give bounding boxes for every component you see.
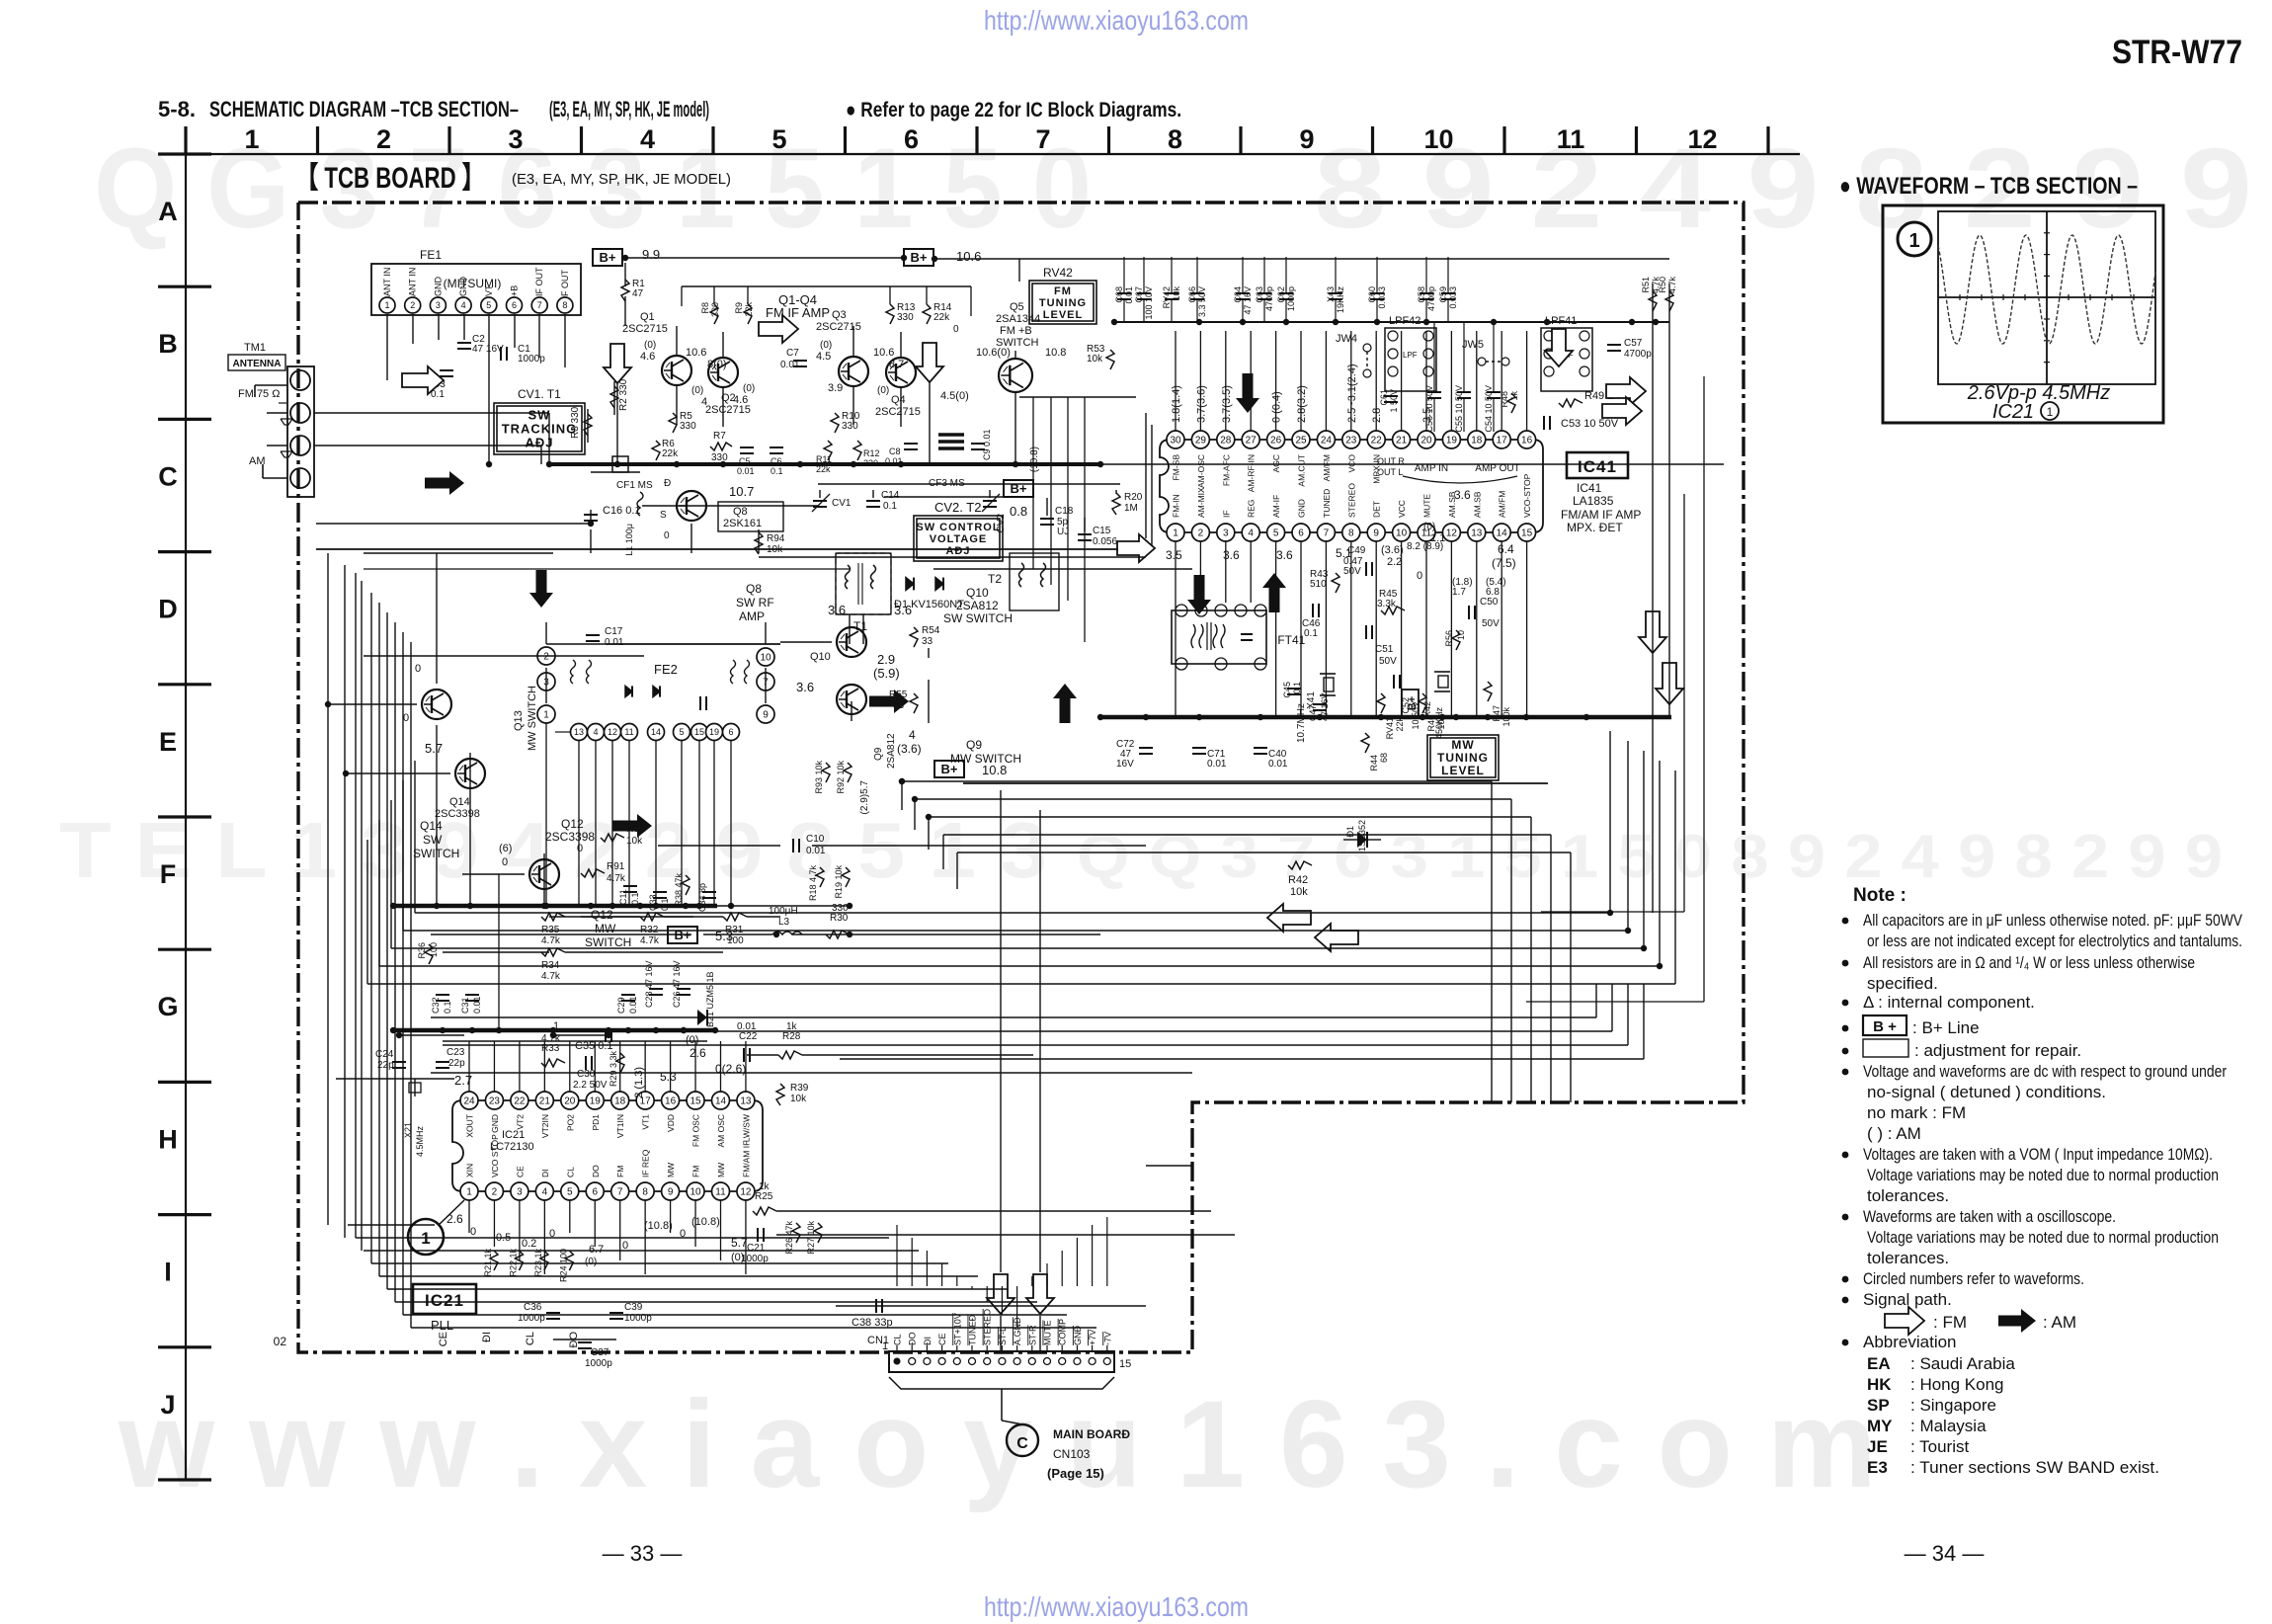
- svg-text:C57: C57: [1624, 338, 1643, 349]
- svg-text:CV2. T2: CV2. T2: [934, 500, 981, 515]
- svg-text:10: 10: [1456, 630, 1466, 640]
- svg-text:0: 0: [415, 663, 421, 675]
- svg-text:MW: MW: [1451, 738, 1474, 752]
- svg-text:8(0): 8(0): [707, 359, 727, 370]
- svg-text:VT2IN: VT2IN: [540, 1114, 550, 1138]
- svg-text:: Singapore: : Singapore: [1910, 1396, 1996, 1415]
- svg-text:4: 4: [909, 728, 916, 742]
- svg-text:ĐO: ĐO: [908, 1333, 918, 1346]
- svg-text:1: 1: [244, 124, 259, 154]
- svg-text:FM: FM: [615, 1166, 625, 1177]
- svg-text:● Refer to page 22 for IC Bloc: ● Refer to page 22 for IC Block Diagrams…: [846, 99, 1181, 122]
- svg-text:R3 330: R3 330: [570, 406, 581, 439]
- svg-text:SP: SP: [1867, 1396, 1890, 1415]
- signal arrow FM down LPF41: [1545, 329, 1573, 366]
- svg-text:FM-IN: FM-IN: [1172, 494, 1181, 518]
- svg-text:C7: C7: [786, 348, 799, 359]
- resistor R31: [723, 913, 747, 921]
- variable capacitor CV2: [983, 500, 997, 502]
- wire antenna leads: [255, 384, 287, 386]
- svg-text:MAIN BOARĐ: MAIN BOARĐ: [1053, 1427, 1130, 1441]
- resistor R37: [601, 834, 624, 842]
- svg-text:R50: R50: [1658, 277, 1667, 293]
- capacitor C64: [1236, 292, 1250, 294]
- svg-text:20: 20: [1420, 436, 1432, 447]
- resistor R29: [616, 1053, 624, 1073]
- svg-text:B: B: [158, 329, 178, 359]
- svg-text:JE: JE: [1867, 1437, 1888, 1456]
- svg-text:10k: 10k: [790, 1094, 807, 1104]
- svg-text:C29: C29: [616, 997, 626, 1014]
- adjust box FM TUNING LEVEL: [1029, 281, 1096, 324]
- svg-text:ĐI: ĐI: [923, 1337, 933, 1345]
- svg-text:F OUT: F OUT: [560, 270, 570, 296]
- svg-text:30: 30: [1170, 436, 1181, 447]
- svg-text:R7: R7: [713, 431, 726, 442]
- svg-text:6: 6: [904, 124, 919, 154]
- capacitor C15: [1078, 533, 1092, 535]
- waveform marker 1: [1898, 222, 1931, 256]
- svg-text:33: 33: [922, 636, 933, 647]
- svg-text:S: S: [660, 510, 667, 521]
- svg-text:10.6: 10.6: [956, 249, 981, 264]
- capacitor C24: [392, 1061, 406, 1063]
- svg-text:C67: C67: [1134, 286, 1144, 303]
- capacitor C52: [1393, 675, 1395, 689]
- svg-text:R18 4.7k: R18 4.7k: [808, 865, 818, 902]
- svg-text:12: 12: [1687, 124, 1717, 154]
- svg-text:LA1835: LA1835: [1573, 494, 1614, 508]
- svg-text:330: 330: [897, 312, 914, 323]
- svg-text:5.3: 5.3: [660, 1070, 677, 1084]
- svg-text:C61: C61: [1379, 389, 1389, 406]
- capacitor C50: [1468, 606, 1470, 619]
- svg-text:(0): (0): [644, 340, 656, 351]
- svg-text:(MITSUMI): (MITSUMI): [444, 277, 502, 290]
- svg-text:L1 100μ: L1 100μ: [624, 524, 634, 556]
- svg-text:MW SWITCH: MW SWITCH: [527, 686, 538, 751]
- svg-text:2 (1.3): 2 (1.3): [633, 1067, 645, 1098]
- adjust box SW CONTROL VOLTAGE ADJ: [914, 516, 1003, 561]
- svg-text:(0): (0): [877, 385, 889, 396]
- svg-text:IC21: IC21: [425, 1291, 464, 1310]
- junction dots: [622, 255, 628, 261]
- svg-text:FM/AM IF: FM/AM IF: [741, 1141, 751, 1177]
- svg-text:Q4: Q4: [891, 394, 906, 406]
- top right bus: [1114, 321, 1669, 323]
- svg-text:10.6: 10.6: [686, 347, 706, 359]
- svg-text:DET: DET: [1372, 501, 1382, 518]
- svg-text:1: 1: [543, 710, 549, 721]
- svg-text:4.7k: 4.7k: [541, 935, 561, 946]
- svg-text:SW SWITCH: SW SWITCH: [943, 611, 1013, 625]
- svg-text:8.7: 8.7: [889, 359, 904, 370]
- svg-text:CE: CE: [937, 1333, 947, 1345]
- svg-text:0.01: 0.01: [605, 637, 624, 648]
- svg-text:R20: R20: [1124, 492, 1143, 503]
- svg-text:4.6: 4.6: [640, 351, 655, 363]
- resistor R18: [816, 867, 824, 887]
- svg-text:A: A: [158, 197, 178, 226]
- board outline dash-dot: [298, 203, 1744, 1352]
- resistor R56: [1452, 630, 1460, 650]
- svg-text:FM IF AMP: FM IF AMP: [766, 305, 830, 320]
- wires mid horizontals: [316, 548, 1118, 550]
- svg-text:0.01: 0.01: [780, 360, 800, 370]
- resistor R20: [1112, 493, 1120, 515]
- svg-text:8: 8: [642, 1187, 648, 1198]
- svg-text:SWITCH: SWITCH: [585, 935, 631, 949]
- svg-text:0.2: 0.2: [522, 1238, 536, 1250]
- adjust box SW TRACKING ADJ: [494, 403, 585, 454]
- capacitor C32: [436, 994, 449, 996]
- svg-text:10k: 10k: [1087, 354, 1103, 365]
- svg-text:Q12: Q12: [561, 817, 584, 831]
- svg-text:C8: C8: [889, 447, 901, 456]
- svg-text:50V: 50V: [1343, 566, 1361, 577]
- svg-text:MUTE: MUTE: [1422, 494, 1432, 518]
- svg-text:Signal path.: Signal path.: [1863, 1290, 1952, 1309]
- svg-text:2.2 50V: 2.2 50V: [573, 1080, 608, 1091]
- transistor Q2 2SC2715: [708, 358, 738, 387]
- svg-text:C54 10 50V: C54 10 50V: [1484, 385, 1494, 433]
- svg-text:5: 5: [1273, 528, 1279, 539]
- resistor R25: [753, 1207, 776, 1215]
- svg-text:2.6Vp-p 4.5MHz: 2.6Vp-p 4.5MHz: [1967, 382, 2111, 404]
- svg-text:B21 UZM5.1B: B21 UZM5.1B: [705, 971, 715, 1027]
- svg-text:JW5: JW5: [1462, 339, 1484, 351]
- svg-text:or less are not indicated exce: or less are not indicated except for ele…: [1867, 932, 2242, 950]
- svg-text:: adjustment for repair.: : adjustment for repair.: [1914, 1041, 2081, 1060]
- transistor Q8 2SK161: [677, 491, 706, 521]
- svg-text:: Hong Kong: : Hong Kong: [1910, 1375, 2004, 1394]
- svg-text:0.033: 0.033: [1377, 286, 1387, 309]
- svg-text:CE: CE: [515, 1166, 525, 1177]
- svg-text:0: 0: [403, 712, 409, 724]
- svg-text:MUTE: MUTE: [1043, 1321, 1053, 1346]
- svg-text:EA: EA: [1867, 1354, 1891, 1373]
- svg-text:5: 5: [567, 1187, 573, 1198]
- resistor R48: [1507, 393, 1515, 413]
- svg-text:All resistors are in Ω and ¹/₄: All resistors are in Ω and ¹/₄ W or less…: [1863, 953, 2195, 972]
- svg-text:4: 4: [593, 727, 598, 737]
- svg-text:2.5~3.1(2.4): 2.5~3.1(2.4): [1346, 364, 1358, 423]
- resistor R28: [778, 1051, 802, 1059]
- svg-text:12: 12: [608, 727, 617, 737]
- svg-text:4: 4: [1248, 528, 1254, 539]
- filter CF3 MS: [938, 433, 964, 436]
- resistor R6 22k: [652, 441, 660, 460]
- svg-text:330: 330: [711, 452, 728, 463]
- svg-text:100μH: 100μH: [769, 906, 798, 917]
- svg-text:AM-RF-IN: AM-RF-IN: [1247, 454, 1257, 492]
- svg-text:330: 330: [680, 421, 696, 432]
- resistor R7 330: [710, 443, 732, 450]
- svg-text:18: 18: [1471, 436, 1483, 447]
- svg-text:6.7: 6.7: [589, 1244, 604, 1256]
- svg-text:DI: DI: [540, 1170, 550, 1178]
- svg-text:25: 25: [1295, 436, 1307, 447]
- svg-text:VOLTAGE: VOLTAGE: [930, 533, 988, 545]
- svg-text:0 (0.4): 0 (0.4): [1271, 391, 1283, 423]
- svg-text:0.01: 0.01: [628, 996, 638, 1014]
- svg-text:22k: 22k: [744, 302, 754, 317]
- capacitor C11: [623, 885, 637, 887]
- svg-text:5: 5: [486, 300, 491, 310]
- svg-text:MPX. ĐET: MPX. ĐET: [1567, 521, 1623, 534]
- svg-text:1000p: 1000p: [585, 1358, 612, 1369]
- svg-text:11: 11: [624, 727, 633, 737]
- B+ box 3: [1004, 480, 1033, 497]
- svg-text:0.1: 0.1: [883, 501, 897, 512]
- svg-text:2: 2: [543, 652, 549, 663]
- svg-text:(10.8): (10.8): [644, 1220, 673, 1232]
- svg-text:SW RF: SW RF: [736, 596, 774, 609]
- svg-text:LC72130: LC72130: [490, 1141, 534, 1153]
- svg-text:Q10: Q10: [966, 586, 989, 600]
- capacitor C17: [586, 634, 600, 636]
- svg-text:: Malaysia: : Malaysia: [1910, 1417, 1987, 1435]
- svg-text:R2 330: R2 330: [618, 378, 629, 411]
- signal arrow down CN1 a: [987, 1274, 1014, 1314]
- svg-text:3.5: 3.5: [1166, 548, 1182, 562]
- svg-text:http://www.xiaoyu163.com: http://www.xiaoyu163.com: [984, 1591, 1249, 1622]
- svg-text:R42: R42: [1288, 874, 1308, 886]
- wires IC21 pin stubs: [468, 1041, 470, 1092]
- svg-text:GND: GND: [490, 1114, 500, 1133]
- svg-text:22k: 22k: [933, 312, 950, 323]
- svg-text:15: 15: [1119, 1358, 1131, 1370]
- transistor Q4 2SC2715: [886, 358, 916, 387]
- svg-text:LPF: LPF: [1403, 351, 1418, 360]
- capacitor C66: [1190, 292, 1204, 294]
- svg-text:R19 10k: R19 10k: [834, 865, 844, 899]
- svg-text:12: 12: [740, 1187, 752, 1198]
- resistor R9 22k: [744, 304, 752, 324]
- svg-text:AM.SB: AM.SB: [1472, 491, 1482, 518]
- signal arrow FM left 1: [1267, 904, 1311, 932]
- svg-text:4.5MHz: 4.5MHz: [415, 1126, 425, 1158]
- svg-text:19: 19: [709, 727, 719, 737]
- svg-text:330: 330: [710, 302, 720, 317]
- capacitor C67: [1137, 292, 1151, 294]
- svg-text:C10: C10: [806, 834, 825, 845]
- svg-text:IF: IF: [1221, 510, 1231, 518]
- svg-text:14: 14: [651, 727, 661, 737]
- svg-text:(2.9)5.7: (2.9)5.7: [859, 780, 870, 815]
- resistor R92: [844, 763, 852, 782]
- svg-text:C15: C15: [1093, 526, 1111, 536]
- diode D1 KV1560NT: [906, 578, 914, 591]
- svg-text:C22: C22: [739, 1031, 758, 1042]
- svg-text:6: 6: [1298, 528, 1304, 539]
- svg-text:20: 20: [564, 1096, 576, 1107]
- svg-text:● WAVEFORM – TCB SECTION –: ● WAVEFORM – TCB SECTION –: [1839, 173, 2138, 200]
- svg-text:24: 24: [1321, 436, 1333, 447]
- svg-text:9.9: 9.9: [642, 247, 660, 262]
- svg-text:TUNEĐ: TUNEĐ: [968, 1315, 978, 1345]
- svg-text:3.9: 3.9: [828, 382, 843, 394]
- capacitor C68: [1117, 292, 1131, 294]
- svg-text:E: E: [159, 727, 177, 757]
- capacitor C10: [792, 839, 794, 853]
- svg-text:C49: C49: [1347, 545, 1366, 556]
- capacitors C56 C55 C54: [1427, 391, 1441, 393]
- svg-text:R56: R56: [1444, 630, 1454, 647]
- resistor R93: [822, 763, 830, 782]
- svg-text:3.3k: 3.3k: [1377, 599, 1397, 609]
- svg-text:R39: R39: [790, 1083, 809, 1094]
- svg-text:FM: FM: [1054, 285, 1072, 297]
- resistor R42: [1288, 861, 1312, 869]
- waveform scope grid: [1938, 211, 2155, 384]
- svg-text:R23 1k: R23 1k: [533, 1249, 543, 1277]
- svg-text:Q Q 3 7 6 3 1 5 1 5 0 8 9: Q Q 3 7 6 3 1 5 1 5 0 8 9 2 4 9 8 2 9 9: [1077, 823, 2223, 891]
- svg-text:0: 0: [664, 530, 670, 541]
- resistor R53 10k: [1106, 350, 1114, 369]
- resistor R43: [1332, 573, 1339, 593]
- svg-text:24: 24: [463, 1096, 475, 1107]
- svg-text:0.1: 0.1: [1304, 628, 1318, 639]
- svg-text:R24 100: R24 100: [558, 1249, 568, 1282]
- transformer T1: [836, 553, 891, 614]
- resistor R49: [1559, 399, 1582, 407]
- svg-text:0: 0: [577, 843, 583, 854]
- svg-text:4: 4: [542, 1187, 548, 1198]
- wires row G-H right horizontals: [431, 1016, 1596, 1018]
- svg-text:1: 1: [882, 1340, 888, 1352]
- svg-text:MY: MY: [1867, 1417, 1893, 1435]
- svg-text:AM.CUT: AM.CUT: [1297, 454, 1307, 487]
- svg-text:ĐI: ĐI: [481, 1332, 493, 1342]
- resistor R30: [826, 931, 850, 938]
- svg-text:R12: R12: [863, 448, 880, 458]
- svg-text:no-signal ( detuned ) conditio: no-signal ( detuned ) conditions.: [1867, 1083, 2106, 1101]
- capacitor C23: [436, 1061, 449, 1063]
- svg-text:Đ: Đ: [664, 478, 671, 489]
- svg-text:10: 10: [690, 1187, 701, 1198]
- svg-text:2.2: 2.2: [1387, 556, 1402, 568]
- svg-text:C38 33p: C38 33p: [852, 1317, 893, 1329]
- svg-text:14: 14: [715, 1096, 727, 1107]
- svg-text:(0): (0): [820, 340, 832, 351]
- svg-text:C16 0.1: C16 0.1: [603, 505, 641, 517]
- svg-text:FM-AFC: FM-AFC: [1221, 454, 1231, 486]
- IC U21 name box: [413, 1284, 476, 1314]
- svg-text:14: 14: [1497, 528, 1508, 539]
- svg-text:GND: GND: [433, 277, 443, 297]
- FE2 inner capacitor: [699, 696, 701, 710]
- svg-text:IC41: IC41: [1577, 481, 1602, 495]
- variable capacitor CV1: [813, 500, 827, 502]
- svg-text:C32: C32: [431, 997, 441, 1014]
- CN1 brace: [889, 1377, 1114, 1389]
- svg-text:18: 18: [614, 1096, 626, 1107]
- capacitor C2: [457, 342, 471, 344]
- resistor R36: [425, 944, 433, 964]
- capacitor C22: [743, 1048, 745, 1062]
- svg-text:C18: C18: [1055, 506, 1074, 517]
- IC U21 outline: [452, 1100, 763, 1191]
- capacitor C29: [621, 994, 635, 996]
- svg-text:2.8(3.2): 2.8(3.2): [1296, 385, 1308, 423]
- svg-text:R25: R25: [755, 1191, 773, 1202]
- svg-text:9: 9: [668, 1187, 674, 1198]
- resistor R51: [1649, 291, 1657, 311]
- svg-text:CL: CL: [525, 1332, 536, 1345]
- svg-text:MW: MW: [666, 1163, 676, 1177]
- svg-text:2SC2715: 2SC2715: [622, 323, 668, 335]
- signal arrow FM left 2: [1315, 924, 1358, 951]
- svg-text:T1: T1: [853, 619, 867, 633]
- signal arrow AM down pin2: [1187, 575, 1211, 614]
- svg-text:RV42: RV42: [1043, 266, 1073, 280]
- transistor Q9 2SA812: [837, 685, 866, 714]
- note B+ symbol: [1863, 1015, 1907, 1035]
- svg-text:5-8.: 5-8.: [158, 97, 196, 122]
- svg-text:AM-IF: AM-IF: [1271, 495, 1281, 518]
- svg-text:21: 21: [1396, 436, 1408, 447]
- svg-text:6.4: 6.4: [1498, 542, 1514, 556]
- capacitor C8: [904, 443, 918, 445]
- svg-text:FM 75 Ω: FM 75 Ω: [238, 388, 280, 400]
- svg-text:+7V: +7V: [1088, 1330, 1097, 1345]
- capacitor C51: [1365, 625, 1367, 639]
- svg-text:47 16V: 47 16V: [472, 344, 504, 355]
- svg-text:(0): (0): [743, 383, 755, 394]
- svg-text:2SC2715: 2SC2715: [875, 406, 921, 418]
- svg-text:FM: FM: [691, 1166, 701, 1177]
- svg-text:AM OSC: AM OSC: [716, 1114, 726, 1148]
- transformer IFT41: [1172, 610, 1266, 664]
- svg-text:Abbreviation: Abbreviation: [1863, 1333, 1957, 1351]
- svg-text:13: 13: [740, 1096, 752, 1107]
- resistor R35: [541, 913, 565, 921]
- svg-text:: Tuner sections SW BAND exist: : Tuner sections SW BAND exist.: [1910, 1458, 2159, 1477]
- svg-text:2SA1344: 2SA1344: [996, 313, 1040, 325]
- svg-text:PO2: PO2: [565, 1114, 575, 1131]
- svg-text:Q10: Q10: [810, 651, 831, 663]
- FE2 inner diodes: [625, 686, 632, 696]
- filter LPF41: [1541, 328, 1592, 391]
- svg-text:Đ1: Đ1: [1345, 826, 1355, 838]
- resistor R39: [776, 1084, 784, 1105]
- svg-text:AGC: AGC: [1271, 454, 1281, 472]
- capacitor C36: [546, 1312, 560, 1314]
- resistor R11 22k: [824, 441, 832, 460]
- svg-text:5: 5: [771, 124, 786, 154]
- B+ box 1: [593, 249, 622, 266]
- capacitor X43: [1329, 292, 1342, 294]
- capacitor C30: [585, 1056, 587, 1070]
- svg-text:VCO: VCO: [1346, 454, 1356, 473]
- svg-text:2SA812: 2SA812: [886, 733, 897, 769]
- connector CN1: [889, 1351, 1114, 1372]
- resistor R55: [910, 693, 918, 713]
- grid ruler vertical: [185, 154, 187, 1480]
- svg-text:C: C: [1016, 1435, 1028, 1452]
- svg-text:MW: MW: [595, 922, 616, 935]
- transistor Q10 2SA812: [837, 627, 866, 657]
- capacitor C26: [677, 988, 690, 990]
- resistor R38: [682, 875, 690, 895]
- IC U21 pins bottom row 1-12: [460, 1182, 478, 1200]
- svg-text:R22 1k: R22 1k: [508, 1249, 518, 1277]
- svg-text:C14: C14: [881, 490, 900, 501]
- svg-text:G: G: [157, 992, 178, 1021]
- svg-text:C62: C62: [1276, 286, 1286, 303]
- svg-text:15: 15: [694, 727, 704, 737]
